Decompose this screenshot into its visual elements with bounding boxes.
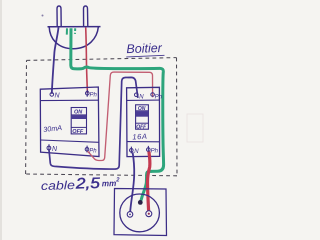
socket S1 earth pin (138, 200, 143, 205)
wire N (violet) plug to breaker D1 (52, 28, 59, 94)
wire N link (violet) D1 bottom to D2 top (49, 77, 138, 169)
svg-text:N: N (139, 94, 144, 100)
socket S1 round well (120, 194, 160, 232)
breaker D1 bottom divider (41, 140, 99, 142)
breaker D1 30mA box (40, 87, 99, 157)
svg-text:mm: mm (102, 178, 117, 188)
faint bleed-through rectangle (187, 114, 203, 142)
breaker D1 switch (71, 108, 86, 136)
socket S1 hole N (127, 212, 133, 218)
svg-text:cable: cable (41, 178, 76, 193)
wire Ph link (red) D1 bottom to D2 top (88, 72, 153, 160)
socket S1 hole Ph (146, 211, 152, 217)
earth symbol inside plug (green) (67, 28, 75, 34)
svg-text:16A: 16A (132, 132, 148, 142)
breaker D2 switch (136, 105, 149, 131)
svg-text:2,5: 2,5 (74, 175, 100, 193)
wire Ph (red) plug to breaker D1 (86, 28, 88, 94)
svg-text:ON: ON (74, 110, 83, 116)
svg-text:OFF: OFF (136, 125, 147, 131)
breaker D1 terminal N top (50, 93, 61, 100)
label cable 2,5mm2 (41, 174, 121, 193)
svg-text:ON: ON (138, 106, 146, 112)
wire PE (green) plug to right side run (71, 28, 164, 171)
breaker D2 16A box (127, 87, 160, 156)
breaker D1 top divider (40, 99, 98, 101)
svg-text:Ph: Ph (151, 148, 159, 154)
plug P1 left prong (57, 6, 61, 27)
svg-text:Ph: Ph (155, 94, 163, 100)
socket S1 faceplate square (114, 189, 167, 236)
svg-text:Boitier: Boitier (126, 41, 163, 56)
svg-text:Ph: Ph (89, 148, 97, 154)
svg-text:OFF: OFF (72, 129, 84, 135)
breaker D2 terminal Ph top (151, 93, 163, 101)
breaker D2 terminal N bottom (130, 147, 140, 155)
label Boitier (126, 41, 164, 57)
breaker D1 terminal N bottom (47, 144, 58, 153)
label 16A (132, 132, 148, 142)
breaker D2 terminal Ph bottom (147, 146, 159, 154)
svg-text:Ph: Ph (90, 93, 98, 99)
breaker D2 terminal N top (135, 93, 145, 100)
breaker D1 terminal Ph bottom (85, 146, 97, 155)
paper background (0, 0, 211, 240)
breaker D1 terminal Ph top (86, 90, 98, 99)
wire PE (green) down to socket earth pin (141, 171, 152, 200)
svg-text:N: N (134, 149, 139, 155)
label 30mA (43, 123, 63, 134)
plug P1 right prong (84, 6, 88, 27)
stray ink speck (42, 15, 44, 17)
wire Ph (red) D2 to socket (148, 152, 150, 211)
breaker D2 top divider (127, 99, 160, 101)
breaker D2 bottom divider (127, 141, 160, 143)
enclosure dashed box (Boitier) (26, 58, 177, 176)
wire N (violet) D2 to socket (130, 152, 134, 212)
plug P1 body (48, 27, 101, 49)
